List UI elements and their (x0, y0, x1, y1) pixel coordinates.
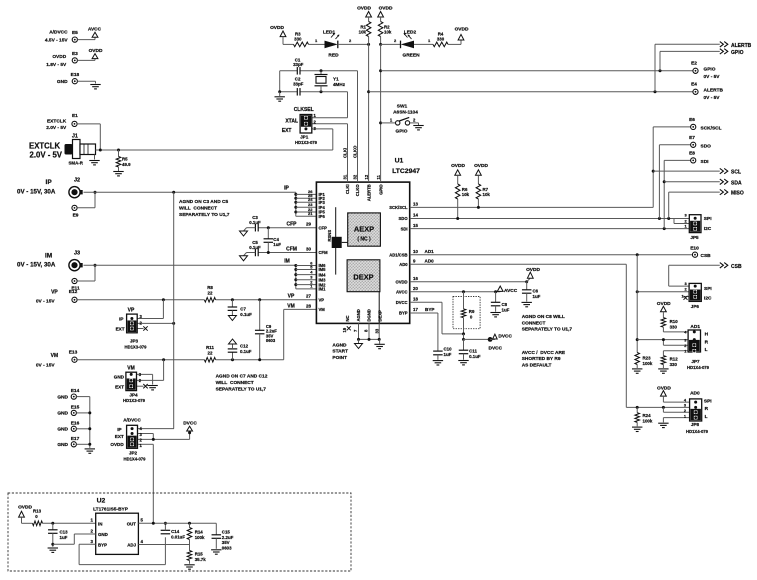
jumper JP5 (689, 215, 701, 233)
svg-text:E9: E9 (73, 213, 79, 219)
capacitor C10 (433, 350, 443, 352)
svg-text:R5: R5 (122, 157, 128, 162)
wire VP net (77, 299, 204, 301)
svg-text:OVDD: OVDD (52, 54, 66, 60)
svg-text:NC: NC (345, 315, 350, 321)
svg-text:AGND ON C8 WILL: AGND ON C8 WILL (522, 314, 565, 320)
turret E7 SDO (691, 142, 696, 147)
arrow SDA (720, 179, 724, 184)
wire JP6 pin3 (669, 285, 689, 287)
svg-text:E2: E2 (691, 61, 697, 67)
svg-text:16: 16 (413, 276, 418, 281)
svg-text:JP8: JP8 (691, 422, 700, 427)
svg-text:AGND: AGND (332, 342, 347, 348)
resistor R14 (189, 523, 191, 527)
svg-text:0V - 5V: 0V - 5V (704, 95, 721, 101)
svg-text:IM: IM (45, 252, 52, 259)
wire R3 to LED1 (309, 43, 325, 45)
ground at JP8 (658, 422, 668, 424)
jumper JP8 (690, 399, 702, 421)
svg-text:0.01uF: 0.01uF (171, 534, 185, 539)
svg-text:E14: E14 (71, 388, 80, 394)
turret E8 SDI (691, 158, 696, 163)
arrow MISO (720, 189, 724, 194)
svg-text:CFP: CFP (319, 225, 328, 230)
wire to pin IM6 (296, 265, 317, 267)
svg-text:GND: GND (57, 79, 68, 85)
svg-text:GREEN: GREEN (402, 53, 420, 59)
svg-text:IM1: IM1 (319, 287, 327, 292)
svg-text:0603: 0603 (266, 338, 276, 343)
svg-text:( NC ): ( NC ) (357, 237, 371, 243)
wire to pin IM5 (296, 269, 317, 271)
svg-text:0V - 5V: 0V - 5V (704, 74, 721, 80)
wire BYP pin17 (410, 312, 438, 314)
svg-text:I2C: I2C (704, 226, 712, 232)
svg-text:1uF: 1uF (444, 352, 452, 357)
svg-text:IP6: IP6 (319, 214, 326, 219)
svg-text:DGND: DGND (367, 309, 372, 321)
svg-text:R14: R14 (195, 529, 204, 534)
svg-text:20: 20 (413, 286, 418, 291)
svg-text:0V - 15V, 30A: 0V - 15V, 30A (17, 262, 56, 269)
wire ALERTB to E4 (369, 91, 693, 93)
svg-text:C13: C13 (60, 529, 69, 534)
wire IM net (84, 264, 296, 266)
wire AD0 pin9 (410, 263, 627, 265)
svg-text:CLKI: CLKI (343, 148, 348, 158)
ground at SW1 (413, 125, 423, 127)
svg-text:IP: IP (284, 185, 289, 191)
svg-text:Y1: Y1 (333, 77, 339, 82)
ground under C15 (211, 549, 221, 551)
ground under R24 (632, 426, 642, 428)
svg-text:SDI: SDI (701, 159, 710, 165)
svg-text:1.8V - 5V: 1.8V - 5V (46, 62, 67, 68)
LED LED2 GREEN (400, 41, 402, 49)
svg-text:33pF: 33pF (293, 62, 304, 67)
svg-text:19: 19 (342, 327, 347, 332)
svg-text:E13: E13 (69, 350, 78, 356)
wire AD1 pin10 (410, 254, 692, 256)
wire J3 loop to E11 (94, 265, 96, 281)
svg-text:0V - 15V: 0V - 15V (36, 362, 55, 368)
svg-text:JP4: JP4 (129, 392, 138, 397)
wire JP8 pin1 (663, 417, 689, 419)
svg-text:4.5V - 15V: 4.5V - 15V (45, 38, 68, 44)
svg-text:2.0V - 5V: 2.0V - 5V (30, 151, 63, 160)
block DEXP (347, 260, 380, 292)
svg-text:VP: VP (288, 294, 295, 300)
svg-text:10k: 10k (462, 192, 470, 197)
svg-text:AD0: AD0 (690, 391, 700, 397)
svg-text:1uF: 1uF (502, 307, 510, 312)
svg-text:AGND ON C7 AND C12: AGND ON C7 AND C12 (216, 374, 268, 380)
IC U1 body (316, 182, 409, 323)
svg-text:E3: E3 (72, 51, 78, 57)
power flag DVCC (490, 338, 495, 340)
svg-text:IP: IP (46, 179, 53, 186)
svg-text:HD1X3-079: HD1X3-079 (123, 398, 146, 403)
capacitor C13 (52, 523, 54, 530)
svg-text:SEPARATELY TO U1,7: SEPARATELY TO U1,7 (179, 212, 230, 218)
svg-text:E7: E7 (689, 135, 695, 141)
svg-text:L: L (705, 414, 708, 420)
svg-text:HD1X4-079: HD1X4-079 (124, 456, 147, 461)
wire DVCC pin18 (410, 301, 442, 303)
svg-text:CFP: CFP (287, 222, 298, 228)
turret E11 (72, 278, 77, 283)
capacitor C5 (254, 249, 256, 257)
resistor R23 (635, 353, 640, 365)
resistor R6 (455, 184, 460, 199)
svg-text:E17: E17 (71, 436, 80, 442)
svg-text:C12: C12 (240, 344, 249, 349)
svg-text:GND: GND (57, 411, 68, 417)
svg-text:AVCC: AVCC (504, 288, 518, 294)
svg-text:33: 33 (374, 328, 379, 333)
AGND arrow start point (358, 339, 360, 343)
svg-text:1uF: 1uF (60, 535, 68, 540)
svg-text:330: 330 (437, 36, 445, 41)
power flag OVDD at C6 (527, 279, 530, 282)
block AEXP (348, 213, 381, 246)
resistor R3 (294, 42, 309, 47)
wire GPIO arrow (659, 51, 661, 70)
svg-text:R8: R8 (207, 285, 213, 290)
svg-text:18: 18 (413, 296, 418, 301)
svg-text:1uF: 1uF (533, 294, 541, 299)
wire to pin IM2 (296, 284, 317, 286)
svg-text:JP5: JP5 (690, 235, 699, 240)
wire IP net (84, 191, 296, 193)
svg-text:CLKSEL: CLKSEL (294, 107, 314, 113)
turret E10 CSB (692, 252, 697, 257)
svg-text:SEPARATELY TO U1,7: SEPARATELY TO U1,7 (216, 387, 267, 393)
svg-text:SCK/SCL: SCK/SCL (389, 205, 408, 210)
svg-text:33pF: 33pF (293, 81, 304, 86)
svg-text:35V: 35V (222, 540, 230, 545)
svg-text:C6: C6 (533, 289, 539, 294)
svg-text:SHORTED BY R9: SHORTED BY R9 (522, 356, 561, 362)
svg-text:GPIO: GPIO (704, 67, 716, 73)
wire GPIO to E2 (381, 70, 693, 72)
ground under C6 (522, 301, 532, 303)
svg-text:OVDD: OVDD (474, 163, 488, 169)
svg-text:E1: E1 (72, 113, 78, 119)
svg-text:J2: J2 (74, 178, 80, 184)
svg-text:E10: E10 (690, 246, 699, 252)
svg-text:OVDD: OVDD (110, 442, 124, 447)
svg-text:2.2uF: 2.2uF (222, 535, 234, 540)
svg-text:VP: VP (51, 289, 58, 295)
resistor R1 (368, 17, 370, 22)
wire SDA arrow (664, 181, 720, 183)
svg-text:MISO: MISO (731, 191, 744, 197)
wire GND pin2 (74, 533, 95, 535)
node IM fan (295, 265, 297, 289)
resistor R7 (476, 184, 481, 199)
jumper JP7 (688, 330, 700, 352)
svg-text:R10: R10 (670, 319, 679, 324)
svg-text:330: 330 (294, 36, 302, 41)
wire OVDD pin16 (410, 281, 527, 283)
jumper JP6 (684, 296, 690, 298)
svg-text:C8: C8 (502, 302, 508, 307)
wire DVCC node (463, 334, 465, 340)
svg-text:JP3: JP3 (130, 338, 139, 343)
wire DEXP to pin 33 (378, 292, 380, 324)
capacitor C9 (259, 300, 261, 331)
svg-text:OVDD: OVDD (455, 27, 469, 33)
svg-text:330: 330 (670, 324, 678, 329)
svg-text:10k: 10k (384, 29, 392, 34)
svg-text:31: 31 (343, 174, 348, 179)
svg-text:21: 21 (308, 211, 313, 216)
wire xtal bottom (280, 91, 298, 93)
svg-text:DVCC: DVCC (498, 334, 512, 340)
ground under C8 (490, 312, 500, 314)
svg-text:HD1X4-079: HD1X4-079 (687, 365, 710, 370)
svg-text:10k: 10k (483, 192, 491, 197)
svg-text:IM: IM (284, 258, 290, 264)
svg-text:AGND: AGND (356, 309, 361, 321)
svg-text:IP: IP (119, 317, 123, 322)
svg-text:EXT: EXT (115, 434, 124, 439)
svg-text:0603: 0603 (222, 546, 232, 551)
svg-text:GPIO: GPIO (396, 129, 408, 135)
ground under R12 (658, 368, 668, 370)
svg-text:0.1uF: 0.1uF (469, 354, 481, 359)
svg-text:R: R (705, 406, 709, 412)
svg-text:SPI: SPI (704, 398, 712, 404)
svg-text:LTC2947: LTC2947 (392, 168, 420, 175)
wire SDO jog JP5 pin2 (673, 219, 675, 224)
svg-text:L: L (705, 347, 708, 353)
resistor RSNS internal (335, 207, 337, 274)
resistor R9 with dashed box (453, 297, 480, 329)
svg-text:330: 330 (670, 362, 678, 367)
svg-text:GND: GND (57, 427, 68, 433)
AGND arrow at C3 (244, 228, 247, 231)
capacitor C1 (296, 67, 298, 75)
svg-text:0.1uF: 0.1uF (249, 245, 261, 250)
svg-text:17: 17 (413, 307, 418, 312)
wire ALERTB pin12 (368, 44, 370, 182)
svg-text:100k: 100k (643, 361, 653, 366)
arrow SCL (720, 168, 724, 173)
ground under R15 (184, 564, 194, 566)
wire to pin IP4 (296, 206, 317, 208)
svg-text:VP: VP (319, 298, 325, 303)
svg-text:OVDD: OVDD (357, 6, 371, 12)
svg-text:ADJ: ADJ (127, 542, 136, 547)
svg-text:DVCC: DVCC (183, 420, 197, 426)
svg-text:A/DVCC: A/DVCC (123, 417, 141, 422)
svg-text:OVDD: OVDD (657, 385, 671, 391)
svg-text:4MHz: 4MHz (333, 82, 346, 87)
svg-text:IP: IP (117, 427, 121, 432)
arrow ALERTB (720, 42, 724, 47)
svg-text:SCL: SCL (731, 170, 741, 176)
wire AD1 riser (636, 255, 638, 353)
svg-text:AD1: AD1 (425, 249, 435, 254)
svg-text:AD1/CSB: AD1/CSB (389, 252, 407, 257)
svg-text:28: 28 (306, 303, 312, 308)
resistor R5 (118, 150, 120, 157)
capacitor C7 (231, 300, 233, 307)
wire SDI pin15 (410, 228, 690, 230)
resistor R12 (661, 356, 666, 365)
svg-text:22: 22 (208, 291, 213, 296)
wire to pin IP6 (296, 215, 317, 217)
capacitor C4 (267, 228, 269, 239)
svg-text:OVDD: OVDD (89, 48, 103, 54)
svg-text:IN: IN (98, 521, 102, 526)
svg-text:AS DEFAULT: AS DEFAULT (522, 362, 552, 368)
svg-text:AD0: AD0 (399, 262, 408, 267)
svg-text:C7: C7 (240, 307, 246, 312)
svg-text:AGND ON C3 AND C5: AGND ON C3 AND C5 (179, 199, 228, 205)
svg-text:E8: E8 (689, 151, 695, 157)
wire JP8 pin2 (662, 407, 664, 412)
ground under C10 (433, 360, 443, 362)
svg-text:AD1: AD1 (690, 324, 700, 330)
svg-text:30: 30 (306, 246, 312, 251)
wire xtal top (280, 70, 298, 72)
svg-text:SDA: SDA (731, 180, 742, 186)
svg-text:35.7k: 35.7k (195, 557, 207, 562)
wire JP7 pin3 (637, 339, 688, 341)
capacitor C2 (296, 88, 298, 96)
svg-text:JP1: JP1 (300, 135, 309, 140)
svg-text:0.1uF: 0.1uF (240, 312, 252, 317)
svg-text:R11: R11 (206, 345, 214, 350)
svg-text:HD1X3-079: HD1X3-079 (125, 345, 148, 350)
svg-text:CLKO: CLKO (355, 184, 360, 197)
svg-text:WILL CONNECT: WILL CONNECT (179, 206, 217, 212)
turret DVCC (488, 337, 493, 342)
wire JP7 pin1 (663, 350, 688, 352)
svg-text:100k: 100k (195, 535, 205, 540)
svg-text:H: H (705, 332, 709, 338)
ground under C2 (275, 96, 285, 98)
svg-text:AEXP: AEXP (354, 225, 374, 234)
power flag AVCC (92, 32, 98, 37)
LED LED1 RED (325, 41, 338, 49)
svg-text:OVDD: OVDD (270, 25, 284, 31)
svg-text:EXT: EXT (282, 128, 292, 134)
AGND arrow at C5 (244, 253, 247, 256)
svg-text:GND: GND (114, 374, 125, 379)
arrow GPIO (720, 49, 724, 54)
svg-text:10k: 10k (359, 29, 367, 34)
svg-text:OVDD: OVDD (657, 301, 671, 307)
svg-text:AVCC: AVCC (396, 290, 408, 295)
svg-text:OUT: OUT (127, 521, 137, 526)
power flag OVDD at R4 (448, 43, 461, 45)
wire to pin IP1 (296, 193, 317, 195)
wire E6 riser (652, 127, 654, 207)
svg-text:OVDD: OVDD (395, 279, 407, 284)
ground under E18 (90, 84, 100, 86)
svg-text:RED: RED (328, 53, 339, 59)
wire SCL arrow (653, 170, 720, 172)
svg-text:0V - 15V, 30A: 0V - 15V, 30A (17, 189, 56, 196)
svg-text:SDI: SDI (401, 226, 408, 231)
svg-text:DVCC: DVCC (489, 345, 503, 351)
resistor R24 (636, 407, 638, 412)
wire JP6 pin2 (637, 291, 689, 293)
wire E7 riser (658, 145, 660, 219)
svg-text:START: START (332, 349, 348, 355)
svg-text:12: 12 (364, 174, 369, 179)
svg-text:1uF: 1uF (273, 242, 281, 247)
svg-text:29: 29 (306, 222, 312, 227)
wire CFM (258, 252, 316, 254)
node IP fan (295, 192, 297, 216)
wire to pin IM3 (296, 279, 317, 281)
wire CFP (258, 227, 316, 229)
resistor R11 (204, 357, 215, 362)
AGND arrow at C12 (229, 339, 237, 344)
svg-text:C14: C14 (171, 529, 180, 534)
wire CSB arrow (668, 265, 670, 286)
svg-text:EXTCLK: EXTCLK (29, 142, 61, 151)
capacitor C11 (463, 339, 465, 350)
ground under R23 (632, 368, 642, 370)
svg-text:POINT: POINT (332, 355, 347, 361)
wire BYP pin3 route (79, 543, 96, 545)
svg-text:DEXP: DEXP (353, 273, 373, 282)
capacitor C15 (215, 523, 217, 535)
svg-text:ALERTB: ALERTB (731, 43, 752, 49)
crystal Y1 (320, 71, 322, 75)
svg-text:R12: R12 (670, 356, 679, 361)
ground under C11 (458, 360, 468, 362)
svg-text:OVDD: OVDD (451, 163, 465, 169)
svg-text:E6: E6 (689, 117, 695, 123)
resistor R13 (22, 522, 33, 524)
svg-text:CONNECT: CONNECT (522, 320, 546, 326)
svg-text:VM: VM (51, 353, 59, 359)
svg-text:C11: C11 (469, 348, 477, 353)
svg-text:AD0: AD0 (425, 259, 435, 264)
svg-text:DVCC: DVCC (396, 300, 408, 305)
wire ADJ net (138, 544, 189, 546)
svg-text:22: 22 (208, 351, 213, 356)
ground under C13 (48, 547, 58, 549)
svg-text:A6SN-1104: A6SN-1104 (393, 110, 418, 116)
capacitor C8 (495, 292, 497, 303)
svg-text:GND: GND (98, 532, 108, 537)
svg-text:SMA-R: SMA-R (69, 161, 84, 166)
svg-text:CLKO: CLKO (353, 145, 358, 158)
svg-text:RSNS: RSNS (327, 230, 332, 242)
arrow CSB (720, 263, 724, 268)
svg-text:13: 13 (413, 202, 418, 207)
svg-text:E4: E4 (691, 82, 697, 88)
wire GPIO pin11 (380, 44, 382, 182)
svg-text:J3: J3 (74, 251, 80, 257)
svg-text:GND: GND (57, 394, 68, 400)
svg-text:R15: R15 (195, 551, 204, 556)
turret E4 ALERTB (693, 89, 698, 94)
svg-text:10: 10 (413, 249, 418, 254)
svg-text:AVCC: AVCC (88, 27, 102, 33)
svg-text:ALERTB: ALERTB (704, 88, 724, 94)
svg-text:HD1X4-079: HD1X4-079 (686, 429, 709, 434)
